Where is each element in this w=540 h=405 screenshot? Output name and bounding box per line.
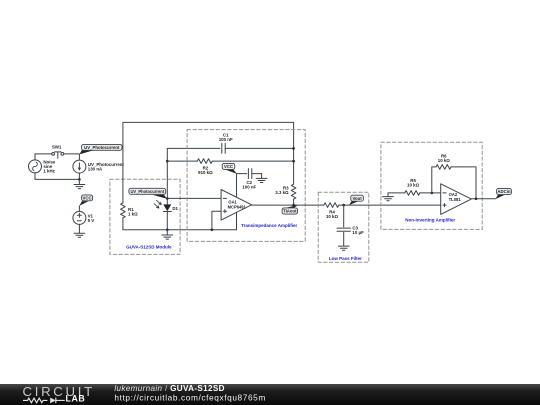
svg-text:1 kHz: 1 kHz xyxy=(43,168,55,173)
svg-text:Vout: Vout xyxy=(352,196,362,201)
footer bar xyxy=(0,384,540,405)
junction R3 output xyxy=(292,204,295,207)
svg-text:Non-Inverting Amplifier: Non-Inverting Amplifier xyxy=(405,218,455,223)
wire opamp output rail xyxy=(252,204,324,206)
svg-text:LAB: LAB xyxy=(66,394,86,404)
junction output/feedback xyxy=(475,198,478,201)
svg-text:Low Pass Filter: Low Pass Filter xyxy=(329,256,362,261)
wire VCC node to C2 xyxy=(237,173,247,175)
current source I1 UV_Photocurrent xyxy=(73,160,86,173)
wire V1 to ground xyxy=(78,224,80,232)
wire feedback to output node xyxy=(451,167,476,199)
CircuitLab logo squiggle (resistor + diode) xyxy=(23,398,65,404)
svg-text:3.3 kΩ: 3.3 kΩ xyxy=(275,190,289,195)
label I1 UV_Photocurrent 130 nA xyxy=(88,162,125,172)
svg-text:TIAout: TIAout xyxy=(283,209,297,214)
svg-text:http://circuitlab.com/cfeqxfqu: http://circuitlab.com/cfeqxfqu8765m xyxy=(114,393,266,403)
svg-text:ADCin: ADCin xyxy=(497,189,511,194)
label R5 10 kOhm xyxy=(407,178,420,188)
svg-text:VCC: VCC xyxy=(224,164,233,169)
switch SW1 xyxy=(52,152,64,159)
label C3 10 uF xyxy=(352,225,364,235)
label OA1 MCP6491 xyxy=(228,200,247,210)
label R3 3.3 kOhm xyxy=(275,186,289,196)
svg-text:UV_Photocurrent: UV_Photocurrent xyxy=(84,145,120,150)
wire opamp plus input branch xyxy=(212,211,221,230)
junction R2 tap xyxy=(166,160,169,163)
wire feedback riser left xyxy=(432,167,436,193)
wire D1 node to opamp minus input xyxy=(167,197,221,199)
wire VEE pin drop xyxy=(236,212,238,229)
resistor R3 xyxy=(291,184,296,199)
svg-text:Transimpedance Amplifier: Transimpedance Amplifier xyxy=(241,223,297,228)
svg-text:10 kΩ: 10 kΩ xyxy=(438,158,451,163)
label OA2 TL081 xyxy=(449,192,462,202)
wire top rail (R1 top to R3 top node) xyxy=(123,122,294,202)
svg-text:910 kΩ: 910 kΩ xyxy=(198,170,213,175)
net flag VCC (above V1) xyxy=(79,195,92,206)
net flag TIAout xyxy=(282,205,298,214)
ground (left source rail) xyxy=(74,179,85,188)
svg-text:lukemurnain / GUVA-S12SD: lukemurnain / GUVA-S12SD xyxy=(114,384,224,393)
svg-text:100 nF: 100 nF xyxy=(242,184,256,189)
wire R2 left segment xyxy=(167,160,197,162)
ground (module) xyxy=(162,230,173,239)
wire sine top to switch xyxy=(35,154,52,160)
svg-text:GUVA-S12SD Module: GUVA-S12SD Module xyxy=(126,244,172,249)
svg-text:10 kΩ: 10 kΩ xyxy=(407,182,420,187)
svg-text:130 nA: 130 nA xyxy=(88,166,103,171)
photodiode D1 xyxy=(154,198,171,229)
net flag Vout xyxy=(349,195,364,205)
wire R3 bottom xyxy=(293,199,295,205)
svg-text:MCP6491: MCP6491 xyxy=(228,204,247,209)
dashed box Low Pass Filter xyxy=(318,192,369,262)
resistor R4 xyxy=(324,203,339,208)
voltage source V1 xyxy=(73,211,86,224)
resistor R2 xyxy=(197,159,212,164)
ground (C2) xyxy=(256,174,267,183)
resistor R5 xyxy=(405,191,420,196)
net flag UV_Photocurrent (top left) xyxy=(79,144,122,154)
label C2 100 nF xyxy=(242,180,256,190)
junction D1 ground xyxy=(166,229,169,232)
svg-text:D1: D1 xyxy=(172,206,178,211)
wire R1 bottom to module ground rail xyxy=(123,218,237,230)
wire R4 to OA2 plus input xyxy=(339,204,441,206)
label R1 1 kOhm xyxy=(128,207,138,217)
svg-text:1 kΩ: 1 kΩ xyxy=(128,211,138,216)
svg-text:100 nF: 100 nF xyxy=(219,137,233,142)
svg-text:10 μF: 10 μF xyxy=(352,230,364,235)
op-amp OA1 MCP6491 xyxy=(221,190,252,221)
junction bottom of current source xyxy=(78,178,81,181)
junction C1 right xyxy=(292,147,295,150)
wire bottom rail sine/current source xyxy=(35,173,79,180)
resistor R6 xyxy=(436,165,451,170)
wire VCC flag to V1 xyxy=(78,206,80,212)
svg-text:UV_Photocurrent: UV_Photocurrent xyxy=(130,189,164,194)
label R2 910 kOhm xyxy=(198,165,213,175)
svg-text:10 kΩ: 10 kΩ xyxy=(326,214,339,219)
junction plus branch on ground rail xyxy=(211,229,214,232)
junction R2 right xyxy=(292,160,295,163)
wire C3 bottom to ground xyxy=(343,232,345,245)
capacitor C2 xyxy=(248,169,261,179)
ground (R5) xyxy=(383,193,405,201)
wire C3 top xyxy=(343,205,345,227)
svg-text:TL081: TL081 xyxy=(449,197,462,202)
wire VCC pin riser xyxy=(236,174,238,198)
net flag VCC (TIA) xyxy=(222,163,237,174)
wire feedback riser at D1 node xyxy=(167,148,220,198)
op-amp OA2 TL081 xyxy=(441,184,472,215)
label V2 Noise sine 1 kHz xyxy=(43,159,56,173)
wire R2 right segment xyxy=(212,160,293,162)
svg-text:5 V: 5 V xyxy=(88,218,95,223)
wire R5 to OA2 minus input xyxy=(420,192,441,194)
label C1 100 nF xyxy=(219,133,233,143)
dashed box Transimpedance Amplifier xyxy=(187,130,305,242)
junction R5/R6 node xyxy=(431,192,434,195)
capacitor C1 xyxy=(222,143,294,153)
net flag ADCin xyxy=(495,188,511,199)
ground (C3) xyxy=(338,246,349,250)
ground (V1) xyxy=(74,233,85,237)
wire OA2 output xyxy=(471,198,495,200)
svg-text:SW1: SW1 xyxy=(52,145,62,150)
svg-text:VCC: VCC xyxy=(83,195,92,200)
capacitor C3 xyxy=(337,228,350,231)
junction D1 node xyxy=(166,197,169,200)
wire switch to current source top xyxy=(64,154,80,160)
label R4 10 kOhm xyxy=(326,209,339,219)
net flag UV_Photocurrent (module) xyxy=(129,188,167,198)
junction R4/C3/Vout node xyxy=(342,204,345,207)
resistor R1 xyxy=(121,203,126,218)
dashed box GUVA-S12SD Module xyxy=(110,179,180,254)
label R6 10 kOhm xyxy=(438,153,451,163)
dashed box Non-Inverting Amplifier xyxy=(381,142,482,229)
label V1 5 V xyxy=(88,213,95,223)
voltage source V2 noise sine xyxy=(29,160,42,173)
